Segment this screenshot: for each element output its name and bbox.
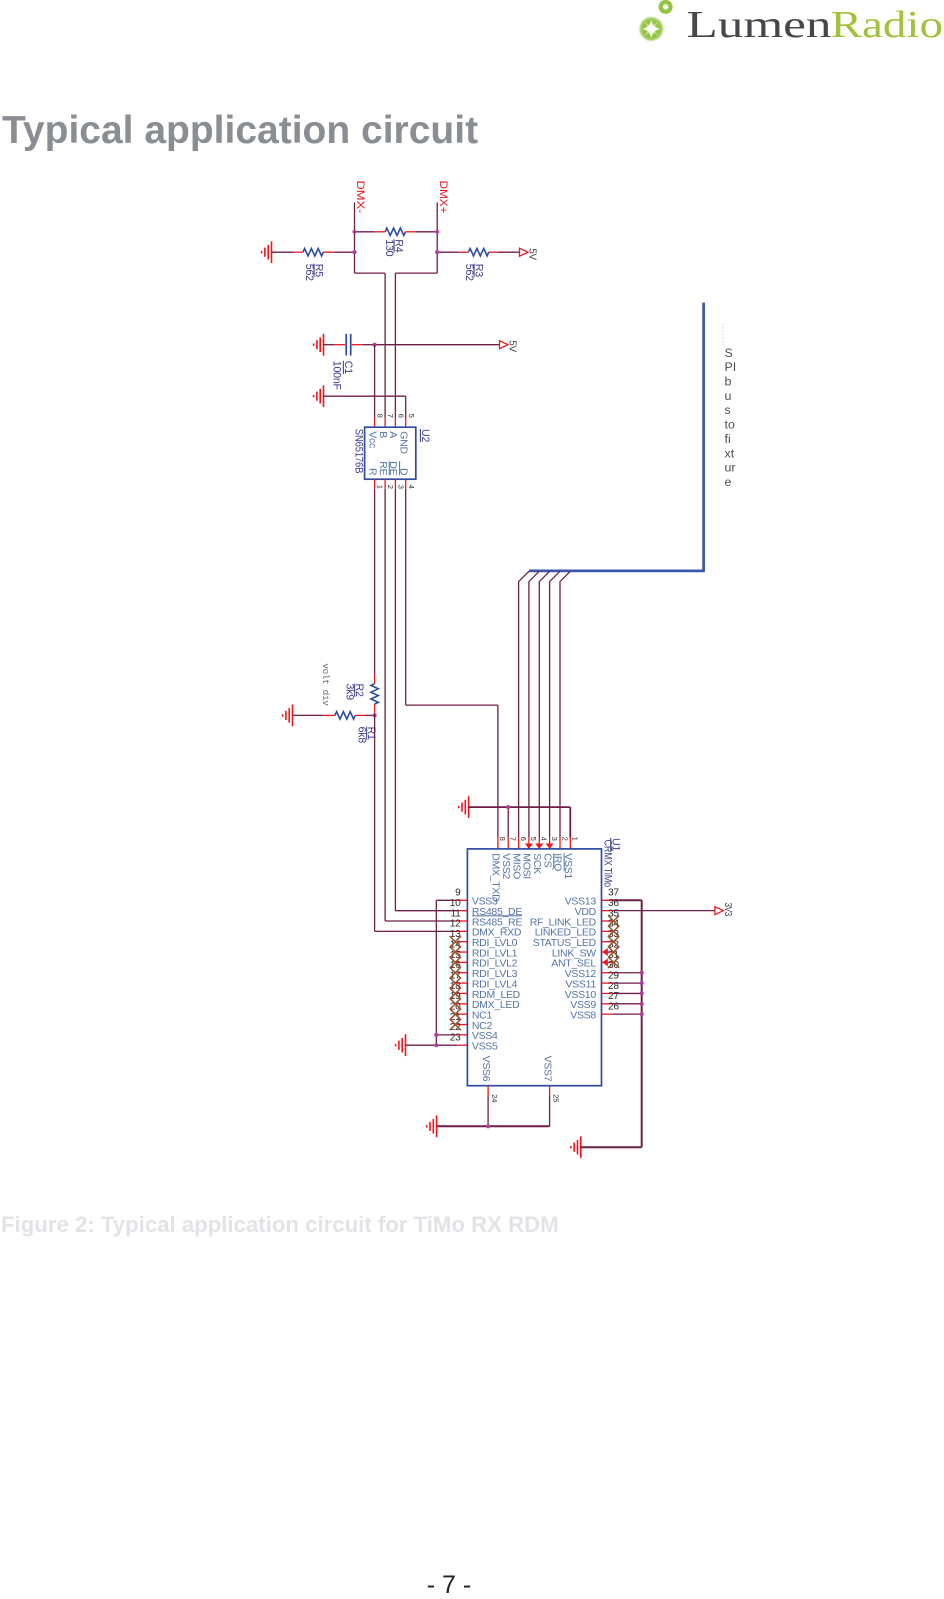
svg-text:9: 9 (455, 888, 461, 899)
logo star burst (642, 20, 661, 39)
svg-text:Vcc: Vcc (366, 431, 378, 448)
X marks unconnected left pins (450, 936, 461, 947)
svg-text:VSS6: VSS6 (480, 1056, 492, 1082)
pin stub C1 right (352, 344, 363, 346)
node DMX- junction dots (352, 230, 356, 234)
pin stub R4 right (405, 231, 415, 233)
svg-text:MISO: MISO (510, 853, 522, 879)
svg-text:5: 5 (529, 837, 538, 841)
svg-text:CS: CS (541, 853, 553, 867)
pin stub R1 left (323, 714, 335, 716)
svg-text:1: 1 (571, 837, 580, 841)
logo small ring (658, 0, 672, 14)
svg-text:U2: U2 (419, 429, 431, 442)
svg-text:2: 2 (560, 837, 569, 841)
svg-text:25: 25 (552, 1094, 561, 1102)
resistor R3 (468, 249, 488, 256)
svg-text:u: u (725, 389, 732, 403)
svg-text:6k8: 6k8 (356, 727, 368, 744)
svg-text:1: 1 (376, 485, 385, 489)
svg-text:S: S (725, 346, 733, 360)
svg-text:A: A (387, 431, 399, 438)
svg-text:fi: fi (725, 432, 731, 446)
svg-text:24: 24 (490, 1094, 499, 1102)
svg-text:C1: C1 (342, 361, 354, 374)
wire R4 row right (415, 231, 437, 233)
svg-text:MOSI: MOSI (521, 853, 533, 879)
svg-text:4: 4 (407, 485, 416, 489)
svg-text:VSS2: VSS2 (500, 853, 512, 879)
ground at R1 (283, 705, 293, 727)
wire R1 to node (365, 714, 375, 716)
wire DMX- vertical (354, 203, 356, 274)
wires VSS12..VSS8 to bus (612, 972, 642, 974)
wire R3 to 5V (498, 251, 520, 253)
ground at bus bottom (571, 1136, 581, 1158)
svg-text:xt: xt (725, 446, 735, 460)
wire ground to U2 pin5 GND (324, 396, 406, 418)
svg-text:DMX+: DMX+ (437, 181, 449, 214)
pin stub R1 right (355, 714, 365, 716)
wire VDD to 3V3 (612, 910, 715, 912)
svg-text:5V: 5V (507, 340, 518, 352)
wire DMX+ to R3 (437, 251, 459, 253)
wire DMX+ vertical (436, 203, 438, 274)
svg-text:SCK: SCK (531, 853, 543, 874)
wire DMX- to U2 pin7 B (355, 273, 386, 418)
input arrows LINK_SW ANT_SEL (602, 948, 607, 956)
svg-text:RE: RE (377, 461, 389, 475)
svg-text:100nF: 100nF (331, 361, 343, 391)
svg-text:8: 8 (498, 837, 507, 841)
wire U2 D to DMX_TXD (406, 489, 498, 838)
svg-text:5V: 5V (527, 248, 538, 260)
note SPI bus to fixture (722, 324, 724, 345)
svg-text:7: 7 (386, 414, 395, 418)
wire R5 row left (272, 251, 294, 253)
wire DMX+ to U2 pin6 A (395, 273, 437, 418)
U1 bottom pin stubs (487, 1086, 489, 1096)
svg-text:volt div: volt div (320, 663, 331, 706)
ground rail bottom (437, 1125, 550, 1127)
svg-text:3k9: 3k9 (344, 684, 356, 701)
svg-text:4: 4 (540, 837, 549, 841)
svg-text:3V3: 3V3 (722, 903, 733, 917)
U2 top pin stubs (374, 418, 376, 427)
ground at U2 GND (314, 385, 324, 407)
IC U1 CRMX TiMo body (467, 849, 601, 1086)
svg-text:VSS7: VSS7 (541, 1056, 553, 1082)
svg-text:562: 562 (303, 264, 315, 281)
svg-text:PI: PI (725, 360, 737, 374)
svg-text:GND: GND (397, 431, 409, 454)
figure caption (1, 1212, 559, 1239)
power arrow 5V (at C1) (500, 341, 508, 349)
svg-text:D: D (397, 468, 409, 476)
power arrow 3V3 (715, 907, 723, 915)
ground at C1 (314, 334, 324, 356)
svg-text:3: 3 (550, 837, 559, 841)
wire U2 RE to RS485_RE (385, 489, 457, 921)
U1 right pin stubs (602, 899, 612, 901)
svg-text:12: 12 (450, 919, 461, 930)
svg-text:562: 562 (463, 264, 475, 281)
ground at R5 (262, 241, 272, 263)
bus entry wires MISO MOSI SCK CS IRQ (519, 571, 529, 837)
wire VSS3/VSS4/VSS5 tie (406, 900, 458, 1045)
resistor R4 (385, 228, 405, 235)
wire ground to bus (581, 1146, 642, 1148)
svg-text:e: e (725, 475, 732, 489)
wire ground rail to VSS1 (469, 807, 571, 838)
svg-text:8: 8 (376, 414, 385, 418)
pin stub R2 top (374, 674, 376, 684)
resistor R5 (303, 249, 323, 256)
X marks unconnected right pins (608, 915, 619, 926)
pin stub R5 right (323, 251, 334, 253)
pin stub C1 left (334, 344, 345, 346)
wire divider to DMX_RXD (375, 714, 458, 931)
wire node down to U2 Vcc (374, 345, 376, 418)
wire U2 DE to RS485_DE (395, 489, 457, 911)
U1 top pin stubs (497, 838, 499, 849)
ground at VSS5 (396, 1034, 406, 1056)
svg-text:VSS5: VSS5 (472, 1041, 498, 1053)
wire R5 to DMX- node (334, 251, 354, 253)
svg-text:R: R (366, 468, 378, 476)
svg-text:to: to (725, 418, 735, 432)
svg-text:7: 7 (509, 837, 518, 841)
svg-text:3: 3 (397, 485, 406, 489)
node Vcc junction (373, 343, 377, 347)
svg-text:ur: ur (725, 461, 736, 475)
resistor R2 (371, 684, 378, 704)
pin stub R3 left (459, 251, 469, 253)
logo big orb (638, 16, 664, 42)
pin stub R2 bottom (374, 704, 376, 714)
wire C1 to node (362, 344, 374, 346)
svg-text:B: B (377, 431, 389, 438)
svg-text:6: 6 (519, 837, 528, 841)
resistor R1 (335, 712, 355, 719)
svg-text:5: 5 (407, 414, 416, 418)
svg-text:VSS8: VSS8 (570, 1009, 596, 1021)
svg-text:DMX-: DMX- (354, 181, 366, 215)
wire node to 5V (375, 344, 500, 346)
wire VSS2 stub to rail (507, 807, 509, 838)
svg-text:11: 11 (451, 908, 462, 919)
wires VSS6 VSS7 to ground (488, 1096, 549, 1127)
logo wordmark (630, 0, 944, 55)
wire gnd to C1 (324, 344, 335, 346)
op IC U2 SN65176B body (365, 427, 416, 479)
svg-text:IRQ: IRQ (552, 853, 564, 871)
page title (2, 108, 478, 155)
svg-text:CRMX TiMo: CRMX TiMo (602, 840, 614, 888)
ground at U1 VSS1/VSS2 (459, 796, 469, 818)
svg-text:6: 6 (397, 414, 406, 418)
pin stub R3 right (489, 251, 498, 253)
wire R4 row left (355, 231, 376, 233)
wire ground to R1 (293, 714, 324, 716)
svg-text:2: 2 (386, 485, 395, 489)
U1 left pin stubs (457, 899, 467, 901)
pin stub R5 left (293, 251, 303, 253)
node VSS2 junction (506, 805, 510, 809)
ground at VSS6/VSS7 (427, 1115, 437, 1137)
capacitor C1 (346, 334, 351, 356)
svg-text:VSS1: VSS1 (562, 853, 574, 879)
svg-text:DE: DE (387, 461, 399, 475)
svg-text:s: s (725, 403, 731, 417)
node DMX+ junction dots (435, 230, 439, 234)
wire VSS13 to ground bus (612, 900, 642, 1147)
power arrow 5V (top) (520, 248, 528, 256)
SPI bus (blue) (529, 303, 704, 572)
svg-text:37: 37 (608, 888, 619, 899)
LumenRadio logo (630, 0, 944, 55)
wire U2 R to volt divider (374, 489, 376, 675)
page number (0, 1573, 898, 1598)
svg-text:SN65176B: SN65176B (353, 429, 365, 474)
svg-text:b: b (725, 375, 732, 389)
U2 bottom pin stubs (374, 479, 376, 489)
svg-text:130: 130 (383, 239, 395, 256)
pin stub R4 left (375, 231, 385, 233)
input arrows MOSI SCK CS (525, 844, 533, 849)
node volt divider junction (373, 713, 377, 717)
